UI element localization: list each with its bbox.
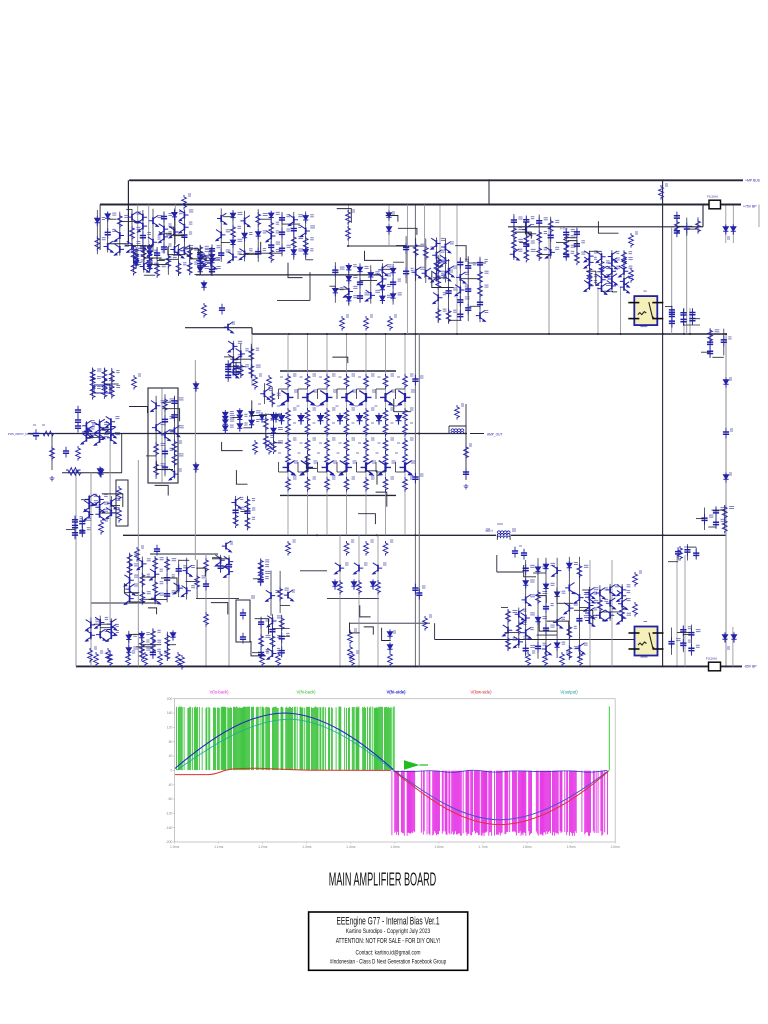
svg-text:V(output): V(output) xyxy=(560,690,578,695)
svg-text:1.1ms: 1.1ms xyxy=(214,845,224,849)
svg-text:+75V BP: +75V BP xyxy=(743,205,757,209)
svg-text:-160: -160 xyxy=(166,826,173,830)
svg-text:-120: -120 xyxy=(166,812,173,816)
svg-text:1.5ms: 1.5ms xyxy=(390,845,400,849)
svg-text:Contact: kartino.id@gmail.com: Contact: kartino.id@gmail.com xyxy=(356,949,421,956)
svg-text:1.3ms: 1.3ms xyxy=(302,845,312,849)
svg-text:F1(10A): F1(10A) xyxy=(707,195,718,199)
svg-text:POS_INPUT_NODE: POS_INPUT_NODE xyxy=(8,432,34,436)
svg-text:-80: -80 xyxy=(167,797,172,801)
svg-text:160: 160 xyxy=(167,711,173,715)
svg-text:Kartino Surodipo - Copyright J: Kartino Surodipo - Copyright July 2023 xyxy=(346,928,431,935)
svg-text:120: 120 xyxy=(167,726,173,730)
svg-text:-65V BP: -65V BP xyxy=(744,665,757,669)
svg-text:1.8ms: 1.8ms xyxy=(522,845,532,849)
svg-text:V(hi-back): V(hi-back) xyxy=(296,690,316,695)
svg-text:2.0ms: 2.0ms xyxy=(611,845,621,849)
svg-text:1.2ms: 1.2ms xyxy=(258,845,268,849)
svg-text:80: 80 xyxy=(169,740,173,744)
svg-text:#Indonesian - Class D Next Gen: #Indonesian - Class D Next Generation Fa… xyxy=(330,958,447,965)
svg-text:ATTENTION: NOT FOR SALE - FOR: ATTENTION: NOT FOR SALE - FOR DIY ONLY! xyxy=(336,938,441,945)
svg-text:V(lo-back): V(lo-back) xyxy=(209,690,229,695)
svg-text:200: 200 xyxy=(167,697,173,701)
svg-text:L=Coil: L=Coil xyxy=(485,529,493,533)
svg-text:1.6ms: 1.6ms xyxy=(434,845,444,849)
svg-text:V(hi-side): V(hi-side) xyxy=(386,690,406,695)
svg-text:1.0ms: 1.0ms xyxy=(170,845,180,849)
svg-text:1.7ms: 1.7ms xyxy=(478,845,488,849)
svg-text:40: 40 xyxy=(169,754,173,758)
svg-text:-200: -200 xyxy=(166,840,173,844)
svg-text:MAIN AMPLIFIER BOARD: MAIN AMPLIFIER BOARD xyxy=(329,869,437,890)
svg-text:V(low-side): V(low-side) xyxy=(471,690,493,695)
svg-text:1.9ms: 1.9ms xyxy=(566,845,576,849)
svg-text:-40: -40 xyxy=(167,783,172,787)
svg-text:H-Bus: H-Bus xyxy=(560,227,568,231)
svg-text:AMP_OUT: AMP_OUT xyxy=(487,433,502,437)
svg-text:F2(10A): F2(10A) xyxy=(706,657,717,661)
svg-text:1.4ms: 1.4ms xyxy=(346,845,356,849)
svg-text:+MP BUS: +MP BUS xyxy=(745,179,761,183)
svg-text:EEEngine G77 - Internal Bias V: EEEngine G77 - Internal Bias Ver.1 xyxy=(337,915,440,927)
svg-text:0: 0 xyxy=(171,769,173,773)
